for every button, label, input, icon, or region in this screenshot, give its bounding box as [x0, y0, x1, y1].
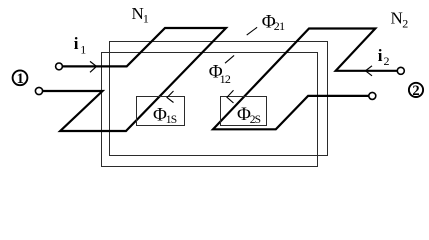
leader tick for Φ12 — [225, 55, 234, 63]
current arrow i1 — [90, 61, 97, 72]
leakage flux box Φ2S — [221, 97, 267, 126]
terminal circle (bottom of coil 2) — [369, 92, 376, 99]
flux arrow on Φ1S box — [167, 91, 174, 103]
svg-text:i: i — [378, 46, 383, 65]
svg-text:2: 2 — [402, 17, 408, 31]
svg-text:N: N — [391, 8, 403, 27]
svg-text:1: 1 — [80, 42, 86, 56]
flux loop rectangle Φ21 (outer core path) — [110, 42, 328, 156]
svg-text:2: 2 — [412, 83, 419, 99]
svg-text:1S: 1S — [166, 114, 177, 126]
terminal circle (bottom of coil 1) — [35, 87, 42, 94]
winding N2 — [213, 29, 397, 130]
current arrow i2 — [366, 66, 373, 76]
circled terminal number 2 — [409, 83, 423, 97]
svg-text:21: 21 — [274, 19, 285, 33]
svg-text:i: i — [74, 34, 79, 53]
svg-text:1: 1 — [143, 12, 149, 26]
svg-text:2S: 2S — [250, 114, 261, 126]
svg-text:12: 12 — [220, 72, 231, 86]
flux loop rectangle Φ12 (inner core path) — [102, 53, 318, 167]
flux arrow on Φ2S box — [227, 90, 234, 103]
circled terminal number 1 — [13, 70, 28, 85]
leader tick for Φ21 — [247, 27, 257, 35]
svg-text:2: 2 — [384, 54, 390, 68]
terminal circle (top of coil 2) — [397, 67, 404, 74]
leakage flux box Φ1S — [137, 97, 185, 126]
winding N1 — [43, 28, 226, 131]
terminal circle (top of coil 1) — [56, 63, 63, 70]
svg-text:1: 1 — [17, 71, 24, 87]
